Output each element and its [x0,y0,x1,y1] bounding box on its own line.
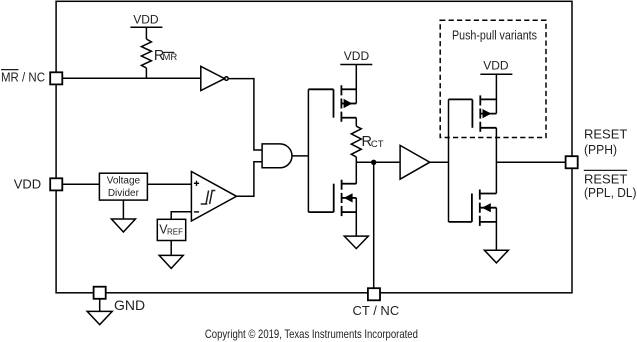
svg-text:Copyright © 2019, Texas Instru: Copyright © 2019, Texas Instruments Inco… [205,328,418,341]
svg-text:CT / NC: CT / NC [353,303,400,318]
svg-text:VDD: VDD [483,59,509,73]
svg-text:REF: REF [167,227,183,236]
svg-text:CT: CT [371,139,384,150]
svg-text:GND: GND [114,297,145,313]
svg-text:VDD: VDD [344,49,370,63]
svg-text:RESET: RESET [584,126,627,141]
svg-text:Voltage: Voltage [107,176,141,187]
svg-text:Divider: Divider [108,188,140,199]
svg-text:(PPL, DL): (PPL, DL) [584,185,637,200]
svg-text:VDD: VDD [133,13,159,27]
svg-text:Push-pull variants: Push-pull variants [452,29,537,43]
svg-text:(PPH): (PPH) [584,142,617,157]
svg-text:MR / NC: MR / NC [1,70,45,85]
svg-text:MR: MR [163,52,178,63]
svg-text:VDD: VDD [14,176,41,191]
